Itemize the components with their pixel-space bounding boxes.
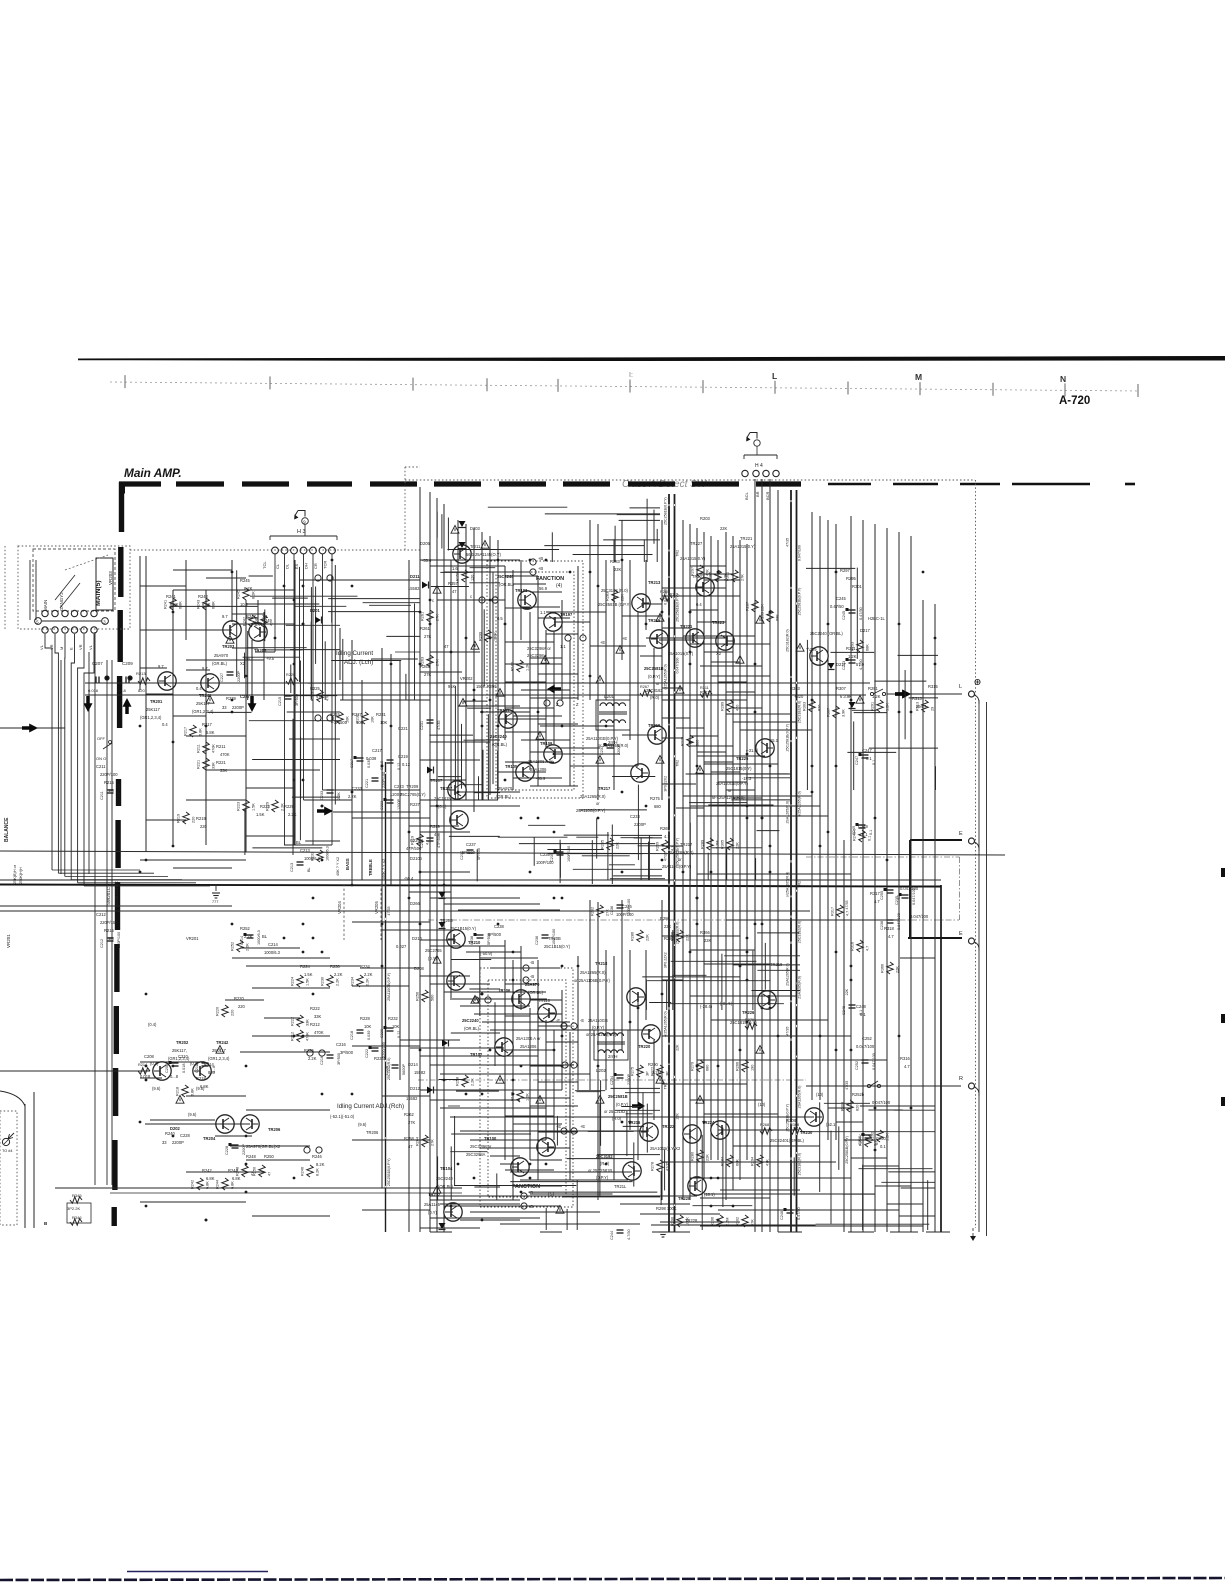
svg-text:820: 820 bbox=[818, 705, 822, 711]
wire bbox=[613, 956, 615, 1180]
svg-text:3P: 3P bbox=[646, 1071, 650, 1076]
wire bbox=[617, 514, 660, 516]
wire bbox=[458, 705, 520, 707]
svg-text:R346: R346 bbox=[72, 1215, 82, 1220]
wire bbox=[186, 669, 210, 671]
diode D212 bbox=[427, 1087, 433, 1094]
transistor TR105 bbox=[516, 763, 534, 781]
svg-text:25A970: 25A970 bbox=[525, 982, 540, 987]
wire bbox=[746, 777, 790, 779]
wire bbox=[505, 1089, 546, 1091]
wire bbox=[664, 1149, 666, 1190]
resistor R293 bbox=[857, 640, 863, 652]
svg-text:27K: 27K bbox=[741, 574, 745, 581]
svg-text:R366: R366 bbox=[881, 964, 885, 973]
svg-text:25K117: 25K117 bbox=[196, 701, 211, 706]
wire bbox=[651, 1224, 816, 1226]
svg-text:294.7: 294.7 bbox=[916, 704, 927, 709]
svg-text:or25A1265(R.0): or25A1265(R.0) bbox=[664, 1011, 668, 1037]
svg-text:27K: 27K bbox=[431, 1139, 435, 1146]
svg-text:R224: R224 bbox=[291, 977, 295, 986]
svg-text:47P/500: 47P/500 bbox=[406, 846, 422, 851]
svg-text:R290: R290 bbox=[648, 1062, 659, 1067]
wire bbox=[482, 750, 484, 800]
wire bbox=[659, 639, 695, 641]
wire bbox=[252, 1215, 330, 1217]
svg-text:TR21L: TR21L bbox=[614, 1184, 627, 1189]
polarity mark bbox=[614, 1073, 617, 1076]
svg-text:D205: D205 bbox=[420, 541, 431, 546]
node bbox=[485, 997, 491, 1003]
svg-text:1.1: 1.1 bbox=[560, 644, 566, 649]
wire bbox=[140, 629, 232, 631]
svg-text:(GR.BL): (GR.BL) bbox=[492, 742, 508, 747]
svg-text:25A970: 25A970 bbox=[498, 786, 513, 791]
svg-text:R315: R315 bbox=[928, 684, 939, 689]
svg-text:0.47/50: 0.47/50 bbox=[859, 607, 863, 620]
svg-text:R243: R243 bbox=[197, 600, 201, 609]
wire bbox=[700, 1225, 790, 1227]
svg-text:250K(H)H: 250K(H)H bbox=[19, 867, 23, 884]
svg-text:R217: R217 bbox=[184, 727, 188, 736]
capacitor C222 bbox=[372, 1047, 379, 1049]
bus line y880 bbox=[0, 879, 941, 881]
wire bbox=[850, 516, 852, 1232]
warning mark bbox=[433, 586, 441, 594]
wire bbox=[476, 849, 478, 881]
svg-text:68K: 68K bbox=[866, 644, 870, 651]
svg-text:R298 100K: R298 100K bbox=[656, 1206, 677, 1211]
svg-text:(OR.BL): (OR.BL) bbox=[528, 990, 544, 995]
wire bbox=[740, 729, 812, 731]
svg-text:R305: R305 bbox=[721, 840, 725, 849]
right edge mark 3 bbox=[1221, 1097, 1225, 1106]
svg-text:C212: C212 bbox=[96, 912, 107, 917]
wire bbox=[52, 869, 140, 871]
wire bbox=[551, 532, 553, 562]
wire bbox=[860, 1105, 935, 1107]
wire bbox=[851, 1157, 887, 1159]
wire bbox=[474, 1013, 562, 1015]
svg-text:0.1: 0.1 bbox=[869, 830, 873, 835]
wire bbox=[652, 1231, 690, 1233]
Rch function dotted box bbox=[480, 968, 573, 1207]
svg-text:(R.0): (R.0) bbox=[650, 695, 660, 700]
wire bbox=[140, 585, 186, 587]
wire bbox=[420, 1227, 480, 1229]
warning mark bbox=[536, 732, 544, 740]
capacitor C215 bbox=[285, 695, 292, 697]
capacitor C221 bbox=[372, 777, 379, 779]
svg-text:(GR1,2,3,4): (GR1,2,3,4) bbox=[140, 715, 162, 720]
svg-text:2.2K: 2.2K bbox=[334, 972, 343, 977]
wire bbox=[701, 1135, 703, 1230]
wire bbox=[633, 1142, 635, 1186]
wire bbox=[690, 1099, 762, 1101]
wire bbox=[450, 1151, 487, 1153]
wire bbox=[726, 919, 899, 921]
svg-text:or 25A1106B(0.P.Y): or 25A1106B(0.P.Y) bbox=[574, 978, 610, 983]
svg-text:2SA1265(R.0): 2SA1265(R.0) bbox=[786, 801, 790, 824]
wire bbox=[510, 1181, 632, 1183]
svg-text:0.039: 0.039 bbox=[366, 756, 377, 761]
wire bbox=[150, 1119, 215, 1121]
svg-text:3P: 3P bbox=[666, 1071, 670, 1076]
svg-text:(9.6): (9.6) bbox=[188, 1112, 197, 1117]
wire bbox=[500, 1223, 640, 1225]
wire bbox=[352, 921, 430, 923]
wire bbox=[638, 845, 665, 847]
svg-text:SUBSONIC: SUBSONIC bbox=[114, 880, 119, 905]
wire bbox=[512, 960, 514, 1200]
svg-text:25A1265(R.0): 25A1265(R.0) bbox=[668, 850, 694, 855]
svg-text:0.12: 0.12 bbox=[402, 762, 411, 767]
resistor R108 bbox=[517, 1090, 523, 1102]
wire bbox=[690, 949, 755, 951]
wire bbox=[769, 479, 771, 1232]
svg-text:C252: C252 bbox=[855, 1061, 859, 1070]
resistor R266 bbox=[742, 1060, 748, 1072]
svg-text:0.047/100: 0.047/100 bbox=[872, 1100, 891, 1105]
capacitor C207 bbox=[95, 677, 97, 684]
svg-text:560: 560 bbox=[431, 995, 435, 1001]
svg-text:4.7: 4.7 bbox=[888, 934, 894, 939]
wire bbox=[661, 900, 663, 1200]
svg-text:L: L bbox=[959, 684, 962, 690]
svg-text:15582: 15582 bbox=[406, 1096, 418, 1101]
svg-text:3P0.22X2: 3P0.22X2 bbox=[664, 952, 668, 968]
wire bbox=[236, 570, 238, 677]
svg-text:C235: C235 bbox=[540, 852, 551, 857]
svg-text:R245: R245 bbox=[240, 578, 251, 583]
bottom short blue rule bbox=[127, 1571, 268, 1573]
svg-text:(GR.BL): (GR.BL) bbox=[496, 794, 512, 799]
wire bbox=[55, 634, 58, 873]
wire bbox=[450, 560, 452, 1000]
resistor R248 bbox=[242, 1165, 248, 1177]
bus line y852 bbox=[0, 851, 1005, 855]
resistor R261 bbox=[427, 610, 433, 622]
wire bbox=[529, 612, 531, 770]
wire bbox=[697, 751, 726, 753]
resistor R299 bbox=[485, 630, 491, 642]
capacitor C228 bbox=[392, 1064, 399, 1066]
svg-text:25A1265(R.0): 25A1265(R.0) bbox=[580, 794, 606, 799]
wire bbox=[640, 655, 662, 657]
wire bbox=[249, 720, 340, 722]
svg-text:C220: C220 bbox=[380, 1029, 384, 1038]
svg-text:25A1145(O.Y): 25A1145(O.Y) bbox=[475, 552, 502, 557]
wire bbox=[303, 566, 305, 800]
svg-text:TR228: TR228 bbox=[685, 1218, 698, 1223]
signal arrow right edge bbox=[29, 724, 38, 733]
bus line y695 L output bbox=[85, 694, 866, 696]
wire bbox=[315, 587, 317, 664]
R output switch bbox=[867, 1084, 870, 1087]
svg-text:BR: BR bbox=[755, 491, 760, 497]
wire bbox=[247, 631, 249, 700]
svg-text:R214: R214 bbox=[204, 1062, 215, 1067]
svg-text:C229: C229 bbox=[410, 838, 421, 843]
wire bbox=[662, 1161, 836, 1163]
svg-text:25A1306 A or: 25A1306 A or bbox=[528, 759, 553, 764]
svg-text:R252: R252 bbox=[231, 942, 235, 951]
svg-text:D210: D210 bbox=[412, 936, 423, 941]
polarity mark bbox=[474, 933, 477, 936]
wire bbox=[819, 516, 821, 1100]
svg-text:6.8K: 6.8K bbox=[206, 730, 215, 735]
wire bbox=[717, 540, 719, 1160]
svg-text:+820: +820 bbox=[794, 694, 804, 699]
wire bbox=[505, 983, 538, 985]
svg-text:R318: R318 bbox=[884, 926, 895, 931]
svg-text:2.2K: 2.2K bbox=[244, 934, 253, 939]
wire bbox=[480, 1147, 546, 1149]
wire bbox=[470, 567, 496, 569]
wire bbox=[447, 518, 449, 551]
dark rail B bbox=[790, 490, 792, 1232]
svg-text:R269: R269 bbox=[660, 826, 671, 831]
svg-text:6.8K: 6.8K bbox=[206, 1176, 215, 1181]
wire bbox=[733, 1145, 820, 1147]
wire bbox=[451, 1133, 531, 1135]
warning mark bbox=[496, 689, 504, 697]
svg-text:1.5K: 1.5K bbox=[306, 978, 310, 986]
wire bbox=[622, 734, 657, 736]
svg-text:C215: C215 bbox=[330, 712, 341, 717]
svg-text:22K: 22K bbox=[706, 1154, 710, 1161]
svg-text:100P/100: 100P/100 bbox=[616, 912, 634, 917]
svg-text:R222: R222 bbox=[310, 1006, 321, 1011]
wire bbox=[439, 1079, 466, 1081]
svg-text:6.8K: 6.8K bbox=[179, 601, 183, 609]
svg-text:27K: 27K bbox=[408, 1120, 416, 1125]
wire bbox=[505, 731, 546, 733]
wire bbox=[505, 707, 554, 709]
node bbox=[557, 700, 563, 706]
warning mark bbox=[596, 756, 604, 764]
svg-text:TR219: TR219 bbox=[648, 723, 661, 728]
resistor R227 bbox=[337, 712, 343, 724]
svg-text:R266: R266 bbox=[736, 1062, 740, 1071]
svg-text:C236: C236 bbox=[535, 936, 539, 945]
capacitor C245 bbox=[849, 609, 856, 611]
svg-text:R221: R221 bbox=[216, 760, 227, 765]
svg-text:R297: R297 bbox=[840, 568, 851, 573]
wire bbox=[438, 682, 472, 684]
wire bbox=[724, 955, 800, 957]
wire bbox=[331, 576, 333, 623]
transistor TR205 bbox=[249, 623, 267, 641]
svg-text:X2: X2 bbox=[240, 661, 246, 666]
svg-text:E: E bbox=[69, 647, 74, 650]
wire bbox=[642, 976, 740, 978]
svg-text:0.047/100: 0.047/100 bbox=[872, 1053, 876, 1070]
wire bbox=[186, 735, 246, 737]
wire bbox=[381, 648, 383, 1188]
wire bbox=[629, 560, 631, 740]
svg-text:+E: +E bbox=[622, 636, 627, 641]
svg-text:C237: C237 bbox=[466, 842, 477, 847]
resistor R277 bbox=[657, 1065, 663, 1077]
wire bbox=[490, 967, 560, 969]
wire bbox=[621, 1106, 641, 1108]
svg-text:-B: -B bbox=[530, 960, 534, 965]
wire bbox=[689, 802, 747, 804]
node bbox=[327, 575, 333, 581]
svg-text:TR207: TR207 bbox=[440, 786, 453, 791]
wire bbox=[240, 947, 300, 949]
resistor R212 bbox=[297, 1030, 303, 1042]
svg-text:(4): (4) bbox=[556, 583, 562, 589]
wire bbox=[662, 595, 740, 597]
wire bbox=[704, 1113, 778, 1115]
transistor TR217 bbox=[631, 764, 649, 782]
wire bbox=[450, 1116, 814, 1118]
wire bbox=[140, 1201, 246, 1203]
wire bbox=[605, 950, 607, 1090]
wire bbox=[457, 520, 459, 800]
warning mark bbox=[481, 541, 489, 549]
VR205 gang dashed bbox=[380, 884, 382, 940]
svg-text:TR222: TR222 bbox=[662, 1124, 675, 1129]
wire bbox=[480, 711, 530, 713]
svg-text:0.1: 0.1 bbox=[880, 1144, 886, 1149]
svg-text:(0.P.Y): (0.P.Y) bbox=[592, 1025, 605, 1030]
wire bbox=[711, 773, 791, 775]
wire bbox=[697, 815, 828, 817]
svg-text:(OR.BL): (OR.BL) bbox=[438, 1184, 454, 1189]
svg-text:MAIN: MAIN bbox=[43, 600, 48, 611]
svg-text:R268: R268 bbox=[760, 1123, 769, 1127]
io box solid verticals bbox=[24, 1104, 26, 1228]
transistor TR219 bbox=[648, 726, 666, 744]
wire bbox=[559, 840, 561, 883]
wire bbox=[704, 761, 733, 763]
svg-text:or: or bbox=[596, 801, 600, 806]
svg-text:D202: D202 bbox=[170, 1126, 181, 1131]
wire rail right of terminals B bbox=[986, 702, 988, 1236]
wire bbox=[570, 765, 638, 767]
wire bbox=[556, 1116, 558, 1146]
svg-text:25C2581B: 25C2581B bbox=[608, 1094, 628, 1099]
wire bbox=[777, 490, 779, 1232]
svg-text:33K: 33K bbox=[212, 762, 216, 769]
wire bbox=[898, 654, 939, 656]
node bbox=[315, 575, 321, 581]
wire bbox=[726, 691, 755, 693]
wire bbox=[436, 512, 438, 538]
node bbox=[315, 715, 321, 721]
svg-text:(GR.BL): (GR.BL) bbox=[212, 661, 228, 666]
svg-text:2.2K: 2.2K bbox=[246, 943, 250, 951]
warning mark bbox=[616, 646, 624, 654]
svg-text:R296: R296 bbox=[711, 1217, 715, 1226]
node bbox=[319, 1050, 325, 1056]
left wire y1124 bbox=[145, 1123, 216, 1125]
wire bbox=[529, 1191, 658, 1193]
wire bbox=[443, 504, 445, 1232]
wire bbox=[145, 556, 147, 852]
svg-text:(0.P.Y): (0.P.Y) bbox=[596, 1175, 609, 1180]
svg-text:3P2.2K: 3P2.2K bbox=[67, 1206, 80, 1211]
wire bbox=[530, 785, 578, 787]
transistor TR228 bbox=[688, 1177, 706, 1195]
resistor R366 bbox=[887, 962, 893, 974]
wire bbox=[588, 1130, 634, 1132]
wire bbox=[430, 1099, 520, 1101]
svg-text:9.7: 9.7 bbox=[222, 614, 228, 619]
wire bbox=[299, 567, 301, 682]
wire bbox=[324, 641, 326, 700]
svg-text:TREBLE: TREBLE bbox=[368, 859, 373, 876]
wire bbox=[478, 776, 480, 800]
wire bbox=[630, 507, 661, 509]
svg-text:680: 680 bbox=[696, 740, 700, 746]
polarity mark bbox=[554, 850, 557, 853]
wire bbox=[544, 545, 644, 547]
svg-text:R247: R247 bbox=[246, 614, 257, 619]
wire bbox=[528, 824, 565, 826]
wire bbox=[731, 799, 790, 801]
svg-text:TR204: TR204 bbox=[203, 1136, 216, 1141]
transistor TR213 bbox=[632, 594, 650, 612]
svg-text:C227: C227 bbox=[220, 673, 224, 682]
wire bbox=[230, 1145, 310, 1147]
svg-text:6.8K: 6.8K bbox=[170, 602, 179, 607]
thick output loop E upper bbox=[910, 839, 962, 841]
wire bbox=[690, 609, 718, 611]
svg-text:5600P: 5600P bbox=[402, 1064, 406, 1075]
svg-text:R291: R291 bbox=[868, 686, 879, 691]
transistor TR202 bbox=[153, 1062, 171, 1080]
wire bbox=[474, 739, 501, 741]
wire bbox=[875, 1185, 911, 1187]
wire bbox=[290, 665, 292, 694]
wire bbox=[559, 843, 561, 878]
warning mark bbox=[176, 1096, 184, 1104]
wire bbox=[498, 771, 546, 773]
transistor TR242 bbox=[193, 1062, 211, 1080]
svg-text:c: c bbox=[470, 594, 472, 599]
svg-text:25C3182(R.0): 25C3182(R.0) bbox=[798, 701, 802, 724]
wire bbox=[591, 840, 593, 884]
wire bbox=[420, 1055, 538, 1057]
wire bbox=[718, 681, 747, 683]
svg-text:47K: 47K bbox=[766, 1159, 770, 1166]
polarity mark bbox=[369, 1046, 372, 1049]
wire bbox=[613, 875, 662, 877]
wire bbox=[513, 583, 546, 585]
wire bbox=[909, 697, 938, 699]
wire bbox=[513, 715, 562, 717]
junction dots bbox=[746, 1021, 749, 1024]
capacitor C217 bbox=[357, 757, 364, 759]
svg-text:R263: R263 bbox=[420, 664, 431, 669]
transistor TR208 bbox=[447, 972, 465, 990]
svg-text:25C2581B(0.P.Y): 25C2581B(0.P.Y) bbox=[387, 1158, 391, 1186]
ruler line bbox=[110, 382, 1140, 391]
transistor TR226 bbox=[758, 991, 776, 1009]
wire bbox=[328, 598, 420, 600]
wire bbox=[172, 590, 174, 845]
svg-text:(5): (5) bbox=[548, 1192, 554, 1198]
wire bbox=[206, 577, 246, 579]
wire bbox=[662, 845, 683, 847]
svg-text:1.5K: 1.5K bbox=[256, 812, 265, 817]
wire bbox=[648, 835, 650, 880]
svg-text:25A110GB(0.P.Y): 25A110GB(0.P.Y) bbox=[716, 781, 749, 786]
